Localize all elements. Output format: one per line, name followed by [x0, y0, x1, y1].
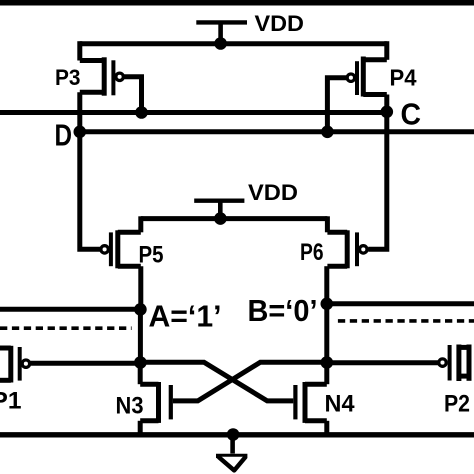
wire node C horizontal	[0, 110, 387, 115]
svg-text:P1: P1	[0, 388, 21, 415]
pmos P2	[439, 345, 469, 382]
junction dot A latch	[134, 356, 147, 369]
pmos P3	[80, 41, 124, 95]
wire VDD rail 1	[80, 41, 387, 46]
wire P1 gate to node A	[30, 361, 141, 366]
wire P3 drain down to P5 gate	[80, 92, 100, 249]
power symbol VDD2 stub	[218, 201, 223, 219]
wire P4 gate to D	[327, 78, 347, 129]
power symbol VDD1 bar	[196, 20, 247, 24]
dashed line left	[0, 326, 132, 330]
ground symbol	[216, 454, 247, 458]
wire node B horizontal	[327, 301, 474, 306]
wire ground rail	[0, 432, 474, 437]
VDD2 junction dot	[214, 212, 227, 225]
pmos P5	[101, 216, 141, 268]
junction dot node C	[381, 106, 394, 119]
wire P3 gate to C	[123, 77, 141, 110]
junction dot node B	[321, 298, 334, 311]
wire cross-couple A to N4 gate	[140, 362, 293, 401]
power symbol VDD1 stub	[218, 22, 223, 43]
svg-text:P4: P4	[390, 65, 417, 91]
junction dot B latch	[321, 356, 334, 369]
svg-text:B=‘0’: B=‘0’	[248, 293, 318, 328]
svg-text:P2: P2	[444, 390, 470, 417]
pmos P1	[0, 346, 30, 383]
svg-text:P3: P3	[55, 65, 81, 90]
wire P4 drain down to P6 gate	[368, 95, 387, 250]
pmos P6	[327, 216, 367, 268]
svg-text:VDD: VDD	[248, 180, 298, 205]
svg-text:N3: N3	[116, 393, 144, 420]
junction dot P4 gate on D wire	[321, 126, 334, 139]
ground stub	[230, 435, 235, 454]
wire node B down to latch	[324, 304, 329, 363]
svg-text:D: D	[55, 118, 73, 153]
ground junction dot	[227, 428, 240, 441]
svg-text:N4: N4	[325, 391, 355, 418]
wire VDD rail 2	[141, 216, 328, 221]
svg-text:C: C	[401, 97, 422, 132]
nmos N3	[140, 363, 171, 436]
wire P2 gate to node B	[327, 360, 439, 365]
top border bar	[0, 0, 474, 6]
wire P5 drain down to node A	[138, 266, 143, 309]
pmos P4	[347, 41, 387, 96]
svg-text:A=‘1’: A=‘1’	[149, 299, 222, 334]
power symbol VDD2 bar	[194, 198, 244, 202]
wire node D horizontal	[80, 129, 474, 134]
dashed line right	[338, 319, 474, 323]
junction dot node A	[134, 303, 147, 316]
svg-text:P5: P5	[139, 242, 164, 269]
junction dot node D	[74, 126, 87, 139]
nmos N4	[295, 363, 326, 436]
wire node A horizontal	[0, 307, 141, 312]
wire cross-couple N3 gate to B	[173, 362, 327, 401]
wire P6 drain down to node B	[324, 266, 329, 304]
wire node A down to latch	[138, 309, 143, 362]
VDD1 junction dot	[214, 37, 227, 50]
svg-text:P6: P6	[300, 239, 324, 266]
junction dot P3 gate on C wire	[135, 106, 148, 119]
svg-text:VDD: VDD	[255, 11, 305, 36]
